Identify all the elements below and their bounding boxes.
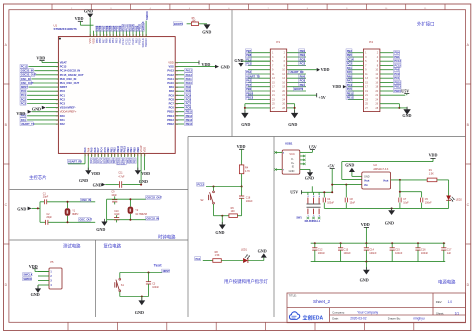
power flag GND at LED1: [258, 249, 267, 258]
svg-text:4.7K: 4.7K: [245, 170, 250, 173]
svg-text:PB14: PB14: [167, 114, 174, 118]
svg-text:10uF: 10uF: [403, 201, 409, 204]
svg-text:65: 65: [143, 34, 145, 36]
connector P1 body: [270, 49, 286, 112]
svg-text:GND: GND: [360, 278, 369, 283]
svg-text:PC5: PC5: [347, 87, 353, 91]
svg-text:PA7: PA7: [347, 79, 352, 83]
svg-text:KB-8585D-L1: KB-8585D-L1: [305, 220, 321, 223]
svg-text:PC0: PC0: [60, 89, 66, 93]
svg-text:VDD: VDD: [321, 67, 330, 72]
power flag VDD at regulator output: [429, 153, 438, 162]
capacitor C17 1uF: [441, 242, 452, 261]
power flag GND at P1 pin5: [234, 58, 270, 67]
svg-text:USART_RX: USART_RX: [290, 70, 304, 74]
section divider horizontal under clock section: [10, 239, 189, 241]
svg-text:GND: GND: [385, 221, 394, 226]
USB1 left shield pins: [274, 151, 285, 171]
net label OSC_IN: [81, 198, 91, 202]
svg-text:PA13: PA13: [167, 69, 174, 73]
net label SWCLK: [23, 273, 32, 277]
section divider horizontal under expansion: [188, 136, 466, 138]
svg-text:USB1: USB1: [285, 142, 293, 146]
svg-text:VDD: VDD: [168, 61, 174, 65]
section divider vertical between test and reset sections: [95, 240, 97, 317]
svg-text:1uF: 1uF: [447, 251, 452, 255]
svg-text:VDDA/VREF+: VDDA/VREF+: [60, 110, 77, 114]
wire decoupling top rail: [311, 242, 446, 244]
logo LCEDA: [289, 312, 323, 322]
power flag GND above U1 top: [84, 9, 93, 31]
svg-text:100nF: 100nF: [421, 251, 429, 255]
svg-text:PB5: PB5: [347, 53, 353, 57]
svg-text:Vout: Vout: [383, 180, 389, 183]
svg-text:1.0: 1.0: [448, 300, 453, 304]
crystal Y2 32.768kHz: [128, 198, 148, 221]
svg-text:PB11: PB11: [347, 91, 354, 95]
switch SW1 KB-8585D-L1: [296, 192, 320, 223]
svg-text:用户按键和用户指示灯: 用户按键和用户指示灯: [224, 278, 269, 285]
capacitor C9 10pF: [107, 191, 146, 205]
svg-text:PC7: PC7: [246, 83, 252, 87]
svg-text:PC13: PC13: [394, 59, 401, 63]
svg-text:PA1: PA1: [347, 66, 352, 70]
svg-text:100nF: 100nF: [318, 251, 326, 255]
svg-text:GND: GND: [93, 182, 102, 187]
svg-text:ID: ID: [292, 167, 295, 169]
svg-text:PB10: PB10: [394, 81, 401, 85]
capacitor C12 100nF: [312, 242, 325, 261]
svg-text:PA11: PA11: [168, 77, 175, 81]
svg-text:PA3: PA3: [246, 79, 251, 83]
power flag U5V at P4: [380, 89, 409, 96]
svg-text:100nF: 100nF: [395, 251, 403, 255]
USB1 unconnected data pins: [300, 155, 306, 165]
power flag GND reset circuit: [135, 297, 145, 315]
svg-text:U2: U2: [373, 163, 377, 167]
svg-text:PA1: PA1: [196, 257, 201, 261]
crystal Y1 8MHz: [65, 201, 80, 224]
svg-text:PA9: PA9: [169, 85, 174, 89]
wire Y1 left rail: [39, 202, 41, 223]
resistor R5 10K: [191, 18, 198, 25]
svg-text:SWCLK: SWCLK: [23, 274, 32, 277]
wire BOOT0 to R5: [187, 23, 192, 25]
svg-text:PB13: PB13: [246, 96, 253, 100]
svg-text:PB12: PB12: [167, 122, 174, 126]
svg-text:NRST: NRST: [163, 269, 170, 273]
wire LED1 to GND: [248, 258, 264, 261]
op-amp U1 STM32F411RET6 body: [58, 37, 175, 154]
svg-text:主控芯片: 主控芯片: [29, 174, 47, 181]
svg-text:LED1: LED1: [241, 249, 248, 252]
svg-text:VDD: VDD: [16, 111, 25, 116]
svg-text:SWDIO: SWDIO: [144, 38, 148, 47]
svg-text:GND: GND: [202, 30, 211, 35]
svg-text:C17: C17: [447, 247, 452, 251]
svg-text:+5V: +5V: [318, 95, 325, 100]
power flag VDD at P4 left: [332, 84, 346, 89]
wire NRST rail: [120, 272, 162, 274]
svg-text:PC9: PC9: [186, 93, 192, 97]
svg-text:58: 58: [120, 34, 122, 36]
svg-text:OSC_IN: OSC_IN: [21, 77, 31, 81]
power flag VDD at debug header: [29, 264, 38, 272]
switch S2: [200, 187, 214, 216]
svg-text:54: 54: [107, 34, 109, 36]
net label BOOT0 at P1: [287, 87, 306, 91]
wires P1 lower right pins to GND: [287, 104, 299, 128]
svg-text:VDD: VDD: [29, 264, 38, 269]
svg-text:VDD: VDD: [36, 55, 45, 60]
svg-text:GND: GND: [215, 230, 224, 235]
svg-text:PB13: PB13: [186, 118, 193, 122]
svg-text:62: 62: [133, 34, 135, 36]
svg-text:OSC_OUT: OSC_OUT: [79, 218, 92, 222]
svg-text:VDD: VDD: [75, 16, 84, 21]
svg-text:PA10: PA10: [167, 81, 174, 85]
svg-text:VBAT: VBAT: [60, 61, 67, 65]
svg-text:GND: GND: [84, 9, 93, 14]
wire power bottom rail: [324, 207, 448, 209]
svg-text:PC2: PC2: [21, 97, 27, 101]
svg-text:PC1: PC1: [394, 76, 400, 80]
wire PA1 to R8: [203, 260, 213, 262]
svg-text:50: 50: [93, 34, 95, 36]
power flag GND right of R5: [202, 24, 211, 34]
wire +5V to U2 Vin: [331, 184, 362, 186]
power flag VDD below U1 left: [85, 157, 100, 176]
USB1 internal pin names: [289, 152, 295, 173]
U1 top pins wires and labels: [88, 21, 148, 48]
svg-text:STM32F411RET6: STM32F411RET6: [54, 27, 78, 31]
svg-text:1/1: 1/1: [455, 311, 460, 315]
capacitor C16 100nF: [415, 242, 428, 261]
svg-text:100nF: 100nF: [425, 201, 432, 204]
svg-text:PA13: PA13: [186, 69, 193, 73]
svg-text:USART_TX: USART_TX: [21, 122, 35, 126]
svg-text:VDD: VDD: [361, 222, 370, 227]
svg-text:66: 66: [146, 34, 148, 36]
svg-text:2020-03-02: 2020-03-02: [350, 317, 367, 321]
svg-text:SWDIO: SWDIO: [145, 11, 149, 20]
frame row ticks left and right: [4, 84, 471, 244]
svg-text:PC1: PC1: [60, 93, 66, 97]
connector P4 pins: [346, 49, 401, 110]
svg-text:PA8: PA8: [186, 89, 191, 93]
wire U1 pin to C11 rail: [139, 157, 148, 186]
capacitor C10 10pF: [107, 210, 146, 223]
svg-text:VSSA/VREF-: VSSA/VREF-: [60, 106, 76, 110]
svg-text:C16: C16: [421, 247, 426, 251]
svg-text:P4: P4: [369, 40, 373, 44]
capacitor C2 20pF: [40, 213, 95, 225]
power flag VDD user key: [237, 144, 246, 165]
svg-text:PC3: PC3: [21, 101, 27, 105]
svg-text:PA1: PA1: [21, 118, 26, 122]
title block Company: [332, 310, 378, 314]
svg-text:C15: C15: [395, 247, 400, 251]
svg-text:PC15: PC15: [394, 64, 401, 68]
svg-text:100nF: 100nF: [344, 251, 352, 255]
connector P5 debug header body: [49, 268, 62, 289]
LED LED2: [446, 196, 462, 209]
svg-text:4.7uF: 4.7uF: [118, 176, 125, 179]
svg-text:PC2: PC2: [347, 62, 353, 66]
svg-text:8MHz: 8MHz: [72, 213, 79, 216]
svg-text:PC6: PC6: [186, 106, 192, 110]
svg-text:PC0: PC0: [21, 89, 27, 93]
svg-text:55: 55: [110, 34, 112, 36]
svg-text:60: 60: [126, 34, 128, 36]
svg-text:PC13: PC13: [60, 65, 67, 69]
net label PC13: [197, 182, 204, 186]
net label SWDIO: [23, 277, 32, 281]
svg-text:PA2: PA2: [60, 122, 65, 126]
svg-text:PB4: PB4: [394, 51, 400, 55]
svg-text:PA12: PA12: [167, 73, 174, 77]
power flag VDD at U1 VBAT pin: [36, 55, 46, 62]
svg-text:Sheet_2: Sheet_2: [313, 299, 331, 304]
svg-text:53: 53: [103, 34, 105, 36]
svg-text:GND: GND: [234, 58, 243, 63]
svg-text:SW1: SW1: [296, 216, 302, 219]
svg-text:PB6: PB6: [300, 49, 306, 53]
svg-text:PC2: PC2: [300, 62, 306, 66]
svg-text:GND: GND: [31, 292, 40, 297]
connector P4 body: [363, 49, 380, 112]
svg-text:Date:: Date:: [332, 317, 339, 321]
svg-text:10pF: 10pF: [111, 194, 117, 197]
svg-text:ninghyu: ninghyu: [413, 317, 424, 321]
svg-text:PB1: PB1: [300, 83, 306, 87]
op-amp U2 AMS1117-3.3 body: [362, 163, 391, 189]
svg-text:PA8: PA8: [169, 89, 174, 93]
svg-text:PA0: PA0: [60, 114, 65, 118]
power flag +5V at P1: [287, 93, 326, 100]
power flag GND at P5 pin4: [31, 285, 41, 297]
svg-text:10K: 10K: [192, 21, 197, 23]
svg-text:PB12: PB12: [186, 122, 193, 126]
section divider vertical between MCU and expansion: [231, 10, 233, 137]
svg-text:PC15_OSC32_OUT: PC15_OSC32_OUT: [60, 73, 84, 77]
svg-text:BOOT0: BOOT0: [294, 87, 303, 91]
capacitor C5 100nF: [421, 192, 433, 209]
svg-text:复位电路: 复位电路: [104, 243, 122, 250]
svg-text:PA5: PA5: [347, 70, 352, 74]
svg-text:Sheet:: Sheet:: [436, 311, 444, 315]
svg-text:Company:: Company:: [332, 310, 345, 314]
capacitor C11 4.7uF: [105, 172, 141, 188]
power flag GND at decoupling rail: [360, 261, 370, 283]
svg-text:GND: GND: [402, 113, 411, 118]
svg-text:PB15: PB15: [186, 110, 193, 114]
svg-text:PB9: PB9: [300, 53, 306, 57]
power flag GND at crystal Y1 circuit: [17, 206, 40, 211]
resistor R4 4.7K: [239, 165, 250, 187]
svg-text:电源电路: 电源电路: [438, 279, 456, 286]
connector P1 pins: [245, 49, 306, 110]
connector USB1 body: [282, 150, 300, 174]
power flag GND at U2: [345, 163, 362, 177]
wire U2 Vout right rail: [391, 179, 428, 181]
svg-text:PB1: PB1: [394, 55, 400, 59]
title block REV 1.0: [436, 300, 452, 304]
svg-text:GND: GND: [258, 249, 267, 254]
svg-text:AMS1117-3.3: AMS1117-3.3: [373, 168, 389, 171]
svg-text:GND: GND: [221, 65, 230, 70]
svg-text:PB7: PB7: [246, 49, 252, 53]
svg-text:C12: C12: [318, 247, 323, 251]
svg-text:100nF: 100nF: [152, 286, 159, 289]
svg-text:PB14: PB14: [186, 114, 193, 118]
svg-text:100nF: 100nF: [369, 251, 377, 255]
svg-text:Vout: Vout: [364, 180, 370, 183]
svg-text:VCC: VCC: [289, 152, 295, 156]
svg-text:PB13: PB13: [167, 118, 174, 122]
svg-text:PA9: PA9: [186, 85, 191, 89]
svg-text:PC9: PC9: [394, 72, 400, 76]
svg-text:PB5: PB5: [133, 158, 137, 164]
svg-text:PC7: PC7: [169, 102, 175, 106]
resistor R8 1.5K: [213, 251, 222, 262]
svg-text:PC2: PC2: [60, 97, 66, 101]
svg-text:PC14-OSC32_IN: PC14-OSC32_IN: [60, 69, 80, 73]
wire VDD to P5 pin1: [35, 271, 49, 273]
capacitor C3 100nF: [146, 273, 160, 297]
U1 bottom pins wires and labels: [83, 145, 146, 165]
svg-text:PB0: PB0: [246, 87, 252, 91]
power flag VDD at decoupling rail: [361, 222, 370, 243]
resistor R1 1.5K: [427, 169, 448, 196]
svg-text:TITLE:: TITLE:: [289, 294, 297, 298]
svg-text:P1: P1: [276, 40, 280, 44]
wire U2 Vout loop to VDD: [342, 162, 433, 180]
svg-text:PB12: PB12: [347, 96, 354, 100]
svg-text:GND: GND: [79, 178, 88, 183]
svg-text:U5V: U5V: [309, 145, 317, 150]
power flag VDD below U1 right cluster: [135, 157, 150, 176]
svg-text:GND: GND: [345, 163, 354, 168]
svg-text:时钟电路: 时钟电路: [158, 233, 176, 240]
svg-text:51: 51: [97, 34, 99, 36]
svg-text:PC3: PC3: [60, 102, 66, 106]
svg-text:PA10: PA10: [186, 81, 193, 85]
svg-text:VDD: VDD: [237, 144, 246, 149]
svg-text:SWCLK: SWCLK: [142, 21, 145, 30]
net label OSC32_IN: [146, 216, 159, 220]
svg-text:Text: Text: [154, 263, 163, 268]
wire reset bottom rail: [120, 296, 149, 298]
svg-text:PC6: PC6: [169, 106, 175, 110]
svg-text:GND: GND: [135, 310, 144, 315]
svg-text:PC13: PC13: [197, 182, 204, 186]
svg-text:57: 57: [116, 34, 118, 36]
capacitor C18 100nF: [239, 187, 253, 216]
svg-text:PB8: PB8: [246, 53, 252, 57]
svg-text:BOOT0: BOOT0: [174, 22, 183, 26]
svg-text:VDD: VDD: [202, 62, 211, 67]
svg-text:SWDIO: SWDIO: [23, 278, 32, 281]
power flag VDD above U1 top: [75, 16, 94, 25]
svg-text:52: 52: [100, 34, 102, 36]
svg-text:20pF: 20pF: [43, 196, 49, 199]
svg-text:OSC32_IN: OSC32_IN: [21, 69, 34, 73]
svg-text:100nF: 100nF: [246, 200, 253, 203]
net label OSC_OUT: [79, 218, 91, 222]
power flag GND at U1 VSSA pin: [32, 106, 46, 112]
svg-text:1.5K: 1.5K: [429, 172, 434, 175]
svg-text:NRST: NRST: [21, 85, 28, 89]
wire decoupling bottom rail: [311, 261, 446, 263]
svg-text:PC9: PC9: [169, 93, 175, 97]
svg-text:GND: GND: [364, 176, 370, 179]
svg-text:PC3: PC3: [246, 62, 252, 66]
svg-text:20pF: 20pF: [46, 216, 52, 219]
svg-text:1.5K: 1.5K: [215, 254, 220, 257]
frame column ticks top: [52, 4, 445, 10]
svg-text:61: 61: [130, 34, 132, 36]
svg-text:PA6: PA6: [347, 74, 352, 78]
net label PA1: [195, 257, 201, 261]
power flag GND at U1 VSS right pin: [215, 65, 230, 70]
svg-text:100uF: 100uF: [327, 201, 334, 204]
section divider vertical between user key and power sections: [273, 137, 275, 318]
svg-text:GND: GND: [305, 176, 314, 181]
svg-text:PH1_OSC_OUT: PH1_OSC_OUT: [60, 81, 80, 85]
svg-text:PB3: PB3: [347, 49, 353, 53]
net label OSC32_OUT: [146, 196, 161, 200]
svg-text:GND: GND: [32, 106, 41, 111]
power flag GND feeding C11: [93, 182, 106, 187]
svg-text:VDD: VDD: [332, 84, 341, 89]
svg-text:PA4: PA4: [300, 74, 305, 78]
net label USART_RX wire: [67, 157, 85, 164]
svg-text:立创EDA: 立创EDA: [303, 315, 324, 322]
svg-text:64: 64: [140, 34, 142, 36]
svg-text:63: 63: [136, 34, 138, 36]
svg-text:C13: C13: [344, 247, 349, 251]
svg-text:PC13: PC13: [21, 65, 28, 69]
power flag VDD at U1 VDDA pin: [16, 110, 46, 116]
U1 left pins wires and labels: [20, 61, 84, 127]
svg-text:OSC32_OUT: OSC32_OUT: [146, 196, 162, 200]
svg-text:PC6: PC6: [300, 79, 306, 83]
svg-text:D-: D-: [291, 159, 294, 161]
svg-text:VDD: VDD: [141, 171, 150, 176]
power flag VDD at U1 VDD right pin: [199, 61, 210, 68]
capacitor C8 10uF: [345, 185, 355, 209]
switch S1: [115, 273, 125, 297]
power flag GND user key: [215, 215, 225, 235]
wire PC13 rail: [206, 186, 243, 188]
svg-text:+5V: +5V: [327, 163, 334, 168]
net label BOOT0: [173, 22, 182, 26]
resistor R6 100: [214, 207, 242, 218]
svg-text:USART_RX: USART_RX: [68, 160, 82, 164]
svg-text:PC0: PC0: [300, 57, 306, 61]
svg-text:10uF: 10uF: [350, 201, 356, 204]
svg-text:LED2: LED2: [456, 198, 463, 201]
svg-text:Your Company: Your Company: [357, 310, 378, 314]
title block Date and Drawn By: [332, 317, 425, 321]
svg-text:REV:: REV:: [436, 300, 443, 304]
section divider horizontal under MCU section: [10, 189, 189, 191]
svg-text:PC1: PC1: [21, 93, 27, 97]
section divider vertical left of user key section: [187, 137, 189, 318]
title block Sheet 1/1: [436, 311, 459, 315]
svg-text:PA1: PA1: [60, 118, 65, 122]
